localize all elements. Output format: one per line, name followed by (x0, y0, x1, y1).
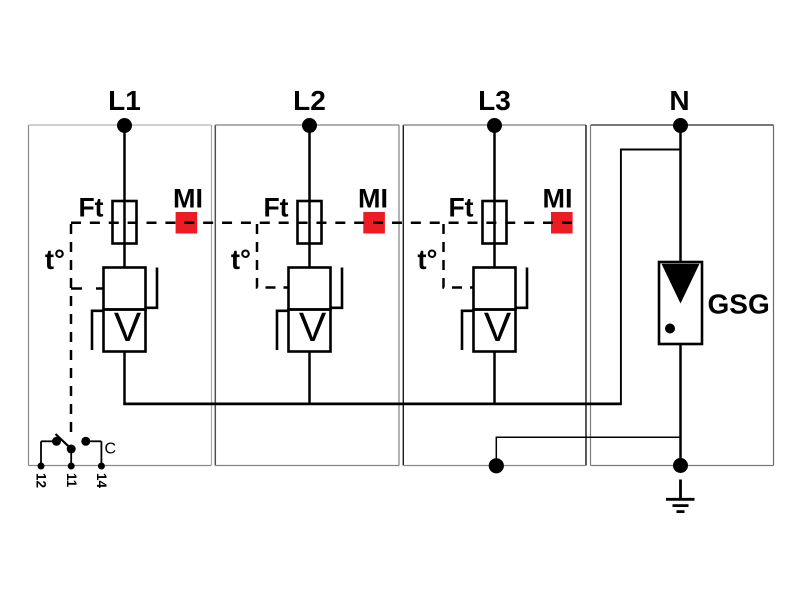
svg-text:Ft: Ft (78, 193, 103, 223)
fuse Ft (L1) (113, 201, 137, 244)
module box L3 (403, 125, 586, 466)
varistor common bus (123, 403, 622, 406)
wire varistor L2 to bus (308, 352, 311, 406)
svg-text:N: N (669, 85, 689, 116)
bus riser to N wire (621, 150, 681, 404)
svg-text:MI: MI (173, 184, 203, 214)
svg-text:V: V (299, 304, 327, 350)
disconnector blade left (L2) (277, 311, 289, 350)
wire GSG to PE terminal (679, 344, 682, 466)
svg-text:MI: MI (543, 184, 573, 214)
indicator MI (L2) (363, 212, 385, 234)
wire varistor L3 to bus (493, 352, 496, 406)
svg-text:L1: L1 (108, 85, 141, 116)
terminal dot 11 (68, 463, 75, 470)
contact stub terminal 12 (40, 441, 42, 466)
disconnector blade left (L3) (462, 311, 474, 350)
MI trip dashed line (71, 221, 572, 224)
thermal sense dashed branch L1 (71, 287, 104, 290)
thermal disconnector (L2) (289, 268, 331, 310)
terminal L2 (302, 118, 317, 133)
svg-text:t°: t° (231, 244, 251, 275)
disconnector blade left (L1) (92, 311, 104, 350)
svg-text:MI: MI (358, 184, 388, 214)
contact fixed point 12 (52, 437, 61, 446)
thermal sense dashed line L1 vertical (70, 224, 73, 433)
svg-text:t°: t° (417, 244, 437, 275)
terminal N (673, 118, 688, 133)
contact stub terminal 11 (70, 449, 72, 466)
module box L1 (29, 125, 212, 466)
svg-text:V: V (114, 304, 142, 350)
wire varistor L1 to bus (123, 352, 126, 406)
disconnector blade right (L1) (146, 268, 158, 308)
indicator MI (L3) (551, 212, 573, 234)
indicator MI (L1) (176, 212, 198, 234)
PE link wire (496, 437, 680, 466)
terminal dot 14 (98, 463, 105, 470)
svg-text:11: 11 (64, 473, 79, 488)
svg-text:C: C (105, 441, 117, 458)
svg-text:Ft: Ft (448, 193, 473, 223)
svg-text:t°: t° (45, 244, 65, 275)
PE terminal N box (673, 458, 688, 473)
spark gap GSG (659, 262, 702, 344)
svg-text:GSG: GSG (708, 289, 770, 320)
module box L2 (215, 125, 399, 466)
thermal sense dashed link (L2) (257, 224, 289, 288)
terminal L3 (487, 118, 502, 133)
ground (666, 480, 695, 512)
thermal disconnector (L1) (104, 268, 146, 310)
wire N terminal to GSG (679, 126, 682, 263)
svg-text:Ft: Ft (263, 193, 288, 223)
svg-text:L2: L2 (293, 85, 326, 116)
terminal L1 (117, 118, 132, 133)
contact lever (56, 434, 73, 450)
thermal disconnector (L3) (474, 268, 516, 310)
varistor V (L1) (104, 304, 146, 352)
contact stub terminal 14 (100, 441, 102, 466)
contact fixed point 14 (81, 437, 90, 446)
contact bar 12 (41, 440, 57, 442)
wire L1 terminal to varistor (123, 126, 126, 269)
wire L2 terminal to varistor (308, 126, 311, 269)
varistor V (L3) (474, 304, 516, 352)
contact bar 14 (86, 440, 102, 442)
svg-text:12: 12 (34, 473, 49, 488)
svg-text:14: 14 (94, 473, 109, 489)
svg-text:L3: L3 (478, 85, 511, 116)
terminal dot 12 (38, 463, 45, 470)
fuse Ft (L3) (483, 201, 507, 244)
PE terminal L3 box (489, 458, 504, 473)
thermal sense dashed link (L3) (444, 224, 474, 288)
contact pivot 11 (67, 445, 76, 454)
disconnector blade right (L3) (516, 268, 528, 308)
fuse Ft (L2) (298, 201, 322, 244)
varistor V (L2) (289, 304, 331, 352)
module box N (591, 125, 774, 466)
wire L3 terminal to varistor (493, 126, 496, 269)
disconnector blade right (L2) (331, 268, 343, 308)
svg-text:V: V (484, 304, 512, 350)
